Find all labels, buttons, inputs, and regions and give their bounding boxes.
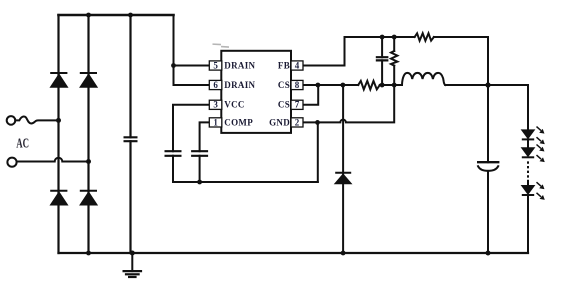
- svg-text:CS: CS: [278, 100, 290, 110]
- svg-text:6: 6: [213, 80, 218, 90]
- svg-text:COMP: COMP: [224, 117, 253, 127]
- svg-text:7: 7: [295, 100, 300, 110]
- svg-text:4: 4: [295, 60, 300, 70]
- svg-text:8: 8: [295, 80, 300, 90]
- svg-text:3: 3: [213, 100, 218, 110]
- svg-text:1: 1: [213, 117, 218, 127]
- svg-text:CS: CS: [278, 80, 290, 90]
- svg-text:2: 2: [295, 117, 300, 127]
- svg-text:5: 5: [213, 60, 218, 70]
- svg-text:DRAIN: DRAIN: [224, 60, 255, 70]
- svg-text:VCC: VCC: [224, 100, 244, 110]
- svg-text:GND: GND: [269, 117, 290, 127]
- svg-text:AC: AC: [16, 137, 29, 152]
- svg-text:FB: FB: [278, 60, 290, 70]
- svg-text:DRAIN: DRAIN: [224, 80, 255, 90]
